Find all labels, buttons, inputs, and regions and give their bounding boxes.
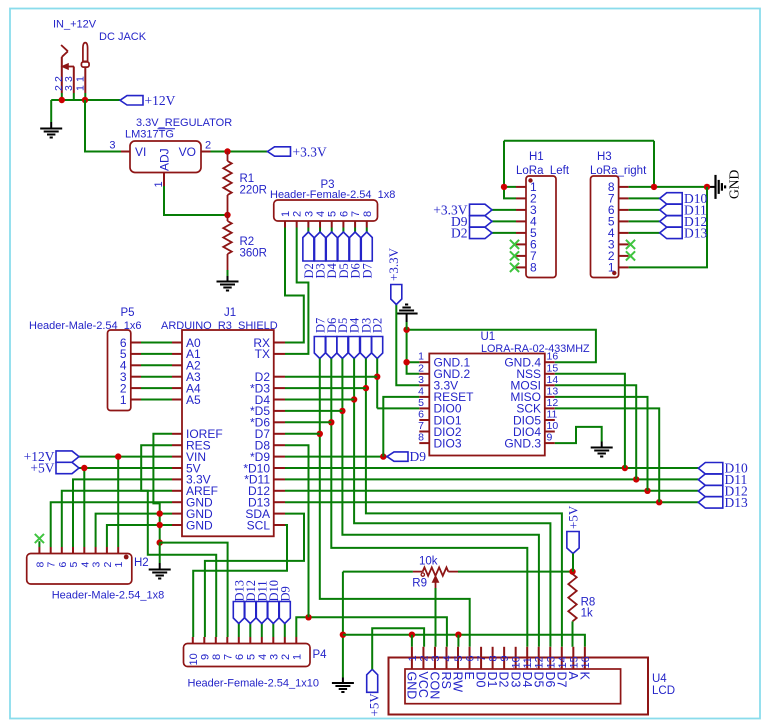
svg-text:7: 7	[350, 211, 362, 217]
svg-text:10k: 10k	[419, 556, 438, 568]
svg-text:+5V: +5V	[367, 693, 382, 717]
svg-text:IN_+12V: IN_+12V	[53, 19, 97, 31]
svg-text:15: 15	[568, 656, 580, 668]
svg-text:5: 5	[453, 655, 465, 661]
svg-text:9: 9	[547, 432, 553, 444]
svg-text:16: 16	[547, 351, 559, 363]
svg-text:LCD: LCD	[652, 685, 675, 697]
svg-text:10: 10	[547, 420, 559, 432]
svg-text:DC JACK: DC JACK	[99, 31, 147, 43]
svg-text:5: 5	[418, 397, 424, 409]
svg-text:1: 1	[120, 393, 127, 407]
svg-text:U4: U4	[652, 673, 667, 685]
svg-text:P5: P5	[121, 307, 135, 319]
svg-text:2: 2	[205, 140, 211, 152]
svg-text:2: 2	[280, 654, 292, 660]
svg-text:VI: VI	[135, 145, 146, 159]
svg-text:1: 1	[280, 211, 292, 217]
svg-text:1: 1	[418, 351, 424, 363]
svg-text:3: 3	[303, 211, 315, 217]
svg-text:13: 13	[545, 656, 557, 668]
svg-text:6: 6	[57, 562, 69, 568]
svg-text:12: 12	[534, 656, 546, 668]
svg-text:R1: R1	[240, 173, 255, 185]
svg-text:8: 8	[211, 654, 223, 660]
svg-text:R2: R2	[240, 236, 255, 248]
svg-text:5: 5	[327, 211, 339, 217]
svg-text:8: 8	[530, 261, 537, 275]
svg-text:14: 14	[547, 374, 559, 386]
svg-text:8: 8	[362, 211, 374, 217]
svg-text:1: 1	[291, 654, 303, 660]
svg-text:1: 1	[407, 655, 419, 661]
svg-text:4: 4	[441, 655, 453, 661]
svg-text:4: 4	[79, 562, 91, 568]
svg-text:P4: P4	[313, 649, 328, 661]
svg-text:3: 3	[91, 562, 103, 568]
svg-text:10: 10	[511, 656, 523, 668]
svg-text:8: 8	[34, 562, 46, 568]
svg-text:J1: J1	[224, 307, 236, 319]
svg-text:ADJ: ADJ	[158, 148, 172, 171]
svg-text:12: 12	[547, 397, 559, 409]
svg-text:3: 3	[268, 654, 280, 660]
svg-text:U1: U1	[481, 331, 496, 343]
svg-text:3: 3	[63, 76, 75, 82]
svg-text:8: 8	[488, 655, 500, 661]
svg-text:3: 3	[418, 374, 424, 386]
svg-text:1k: 1k	[581, 608, 593, 620]
svg-text:6: 6	[338, 211, 350, 217]
svg-text:D13: D13	[684, 225, 707, 240]
svg-text:Header-Male-2.54_1x8: Header-Male-2.54_1x8	[52, 590, 165, 602]
svg-text:5: 5	[68, 562, 80, 568]
svg-text:DIO3: DIO3	[434, 436, 462, 450]
svg-text:GND: GND	[186, 518, 213, 532]
svg-text:H1: H1	[529, 151, 544, 163]
svg-text:4: 4	[418, 385, 424, 397]
svg-text:7: 7	[418, 420, 424, 432]
svg-text:D2: D2	[451, 225, 468, 240]
svg-text:7: 7	[476, 655, 488, 661]
svg-text:5: 5	[245, 654, 257, 660]
svg-text:H3: H3	[597, 151, 612, 163]
svg-text:6: 6	[465, 655, 477, 661]
svg-text:360R: 360R	[240, 248, 268, 260]
svg-text:2: 2	[102, 562, 114, 568]
svg-text:8: 8	[418, 432, 424, 444]
svg-text:16: 16	[580, 656, 592, 668]
svg-text:+12V: +12V	[24, 449, 55, 464]
svg-text:D9: D9	[278, 586, 292, 601]
svg-text:9: 9	[499, 655, 511, 661]
svg-text:6: 6	[234, 654, 246, 660]
svg-text:H2: H2	[134, 557, 149, 569]
svg-text:A5: A5	[186, 393, 201, 407]
svg-text:1: 1	[74, 85, 86, 91]
svg-text:7: 7	[222, 654, 234, 660]
svg-text:14: 14	[557, 656, 569, 668]
svg-text:TX: TX	[255, 347, 270, 361]
svg-text:D2: D2	[371, 318, 385, 333]
svg-text:GND.3: GND.3	[504, 436, 541, 450]
svg-text:220R: 220R	[240, 185, 268, 197]
svg-text:3: 3	[430, 655, 442, 661]
svg-text:2: 2	[292, 211, 304, 217]
svg-text:+3.3V: +3.3V	[293, 145, 327, 160]
svg-text:11: 11	[547, 409, 558, 421]
svg-text:D7: D7	[360, 263, 374, 278]
svg-text:13: 13	[547, 385, 559, 397]
svg-text:1: 1	[608, 261, 615, 275]
svg-text:10: 10	[188, 653, 200, 665]
svg-text:3: 3	[63, 85, 75, 91]
svg-text:K: K	[577, 672, 591, 681]
svg-text:VO: VO	[179, 145, 196, 159]
svg-text:9: 9	[199, 654, 211, 660]
svg-text:15: 15	[547, 362, 559, 374]
svg-text:+5V: +5V	[566, 505, 581, 529]
svg-text:R9: R9	[412, 578, 427, 590]
svg-text:6: 6	[418, 409, 424, 421]
svg-text:2: 2	[418, 362, 424, 374]
svg-text:1: 1	[74, 76, 86, 82]
svg-text:+12V: +12V	[145, 93, 176, 108]
svg-text:GND: GND	[727, 170, 742, 199]
svg-text:3.3V_REGULATOR: 3.3V_REGULATOR	[136, 117, 232, 129]
svg-text:+3.3V: +3.3V	[386, 247, 401, 281]
svg-text:LM317TG: LM317TG	[125, 129, 174, 141]
svg-text:2: 2	[418, 655, 430, 661]
svg-text:Header-Female-2.54_1x10: Header-Female-2.54_1x10	[188, 678, 319, 690]
svg-text:4: 4	[315, 211, 327, 217]
svg-text:D9: D9	[410, 449, 427, 464]
svg-text:3: 3	[109, 140, 115, 152]
svg-text:11: 11	[522, 657, 534, 668]
svg-text:D13: D13	[725, 495, 748, 510]
svg-text:SCL: SCL	[247, 518, 271, 532]
svg-text:4: 4	[257, 654, 269, 660]
svg-text:1: 1	[113, 562, 125, 568]
